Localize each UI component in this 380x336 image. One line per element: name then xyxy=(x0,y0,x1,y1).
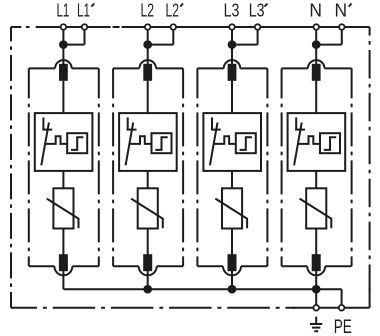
svg-text:L3: L3 xyxy=(224,1,240,21)
svg-text:L3: L3 xyxy=(249,1,265,21)
svg-text:N: N xyxy=(335,1,348,21)
svg-text:PE: PE xyxy=(334,316,352,336)
svg-text:L2: L2 xyxy=(140,1,154,21)
svg-text:L1: L1 xyxy=(77,1,90,21)
svg-text:L1: L1 xyxy=(56,1,69,21)
svg-text:N: N xyxy=(309,1,322,21)
svg-text:L2: L2 xyxy=(166,1,180,21)
